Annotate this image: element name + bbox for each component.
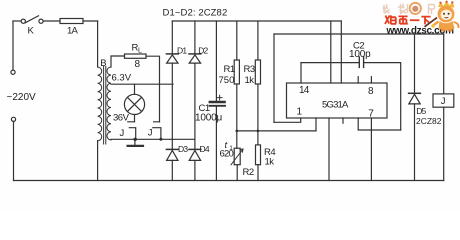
wire D5 bottom lead [414, 104, 416, 181]
switch K [21, 19, 25, 23]
svg-text:R1: R1 [224, 64, 235, 75]
svg-text:100p: 100p [349, 49, 371, 60]
pin stub top a [357, 77, 359, 83]
wire pin 7 down to bottom rail [370, 118, 372, 181]
terminal lower ~220V [11, 117, 15, 121]
wire relay J bottom lead [443, 107, 445, 180]
faint char group left [383, 4, 408, 15]
ground [134, 139, 136, 145]
lamp 36V [124, 94, 144, 114]
svg-text:J: J [441, 96, 446, 107]
wire RL right then down to contact J' [146, 56, 160, 122]
wire D4 anode to bottom rail [194, 160, 196, 180]
svg-text:2CZ82: 2CZ82 [416, 116, 442, 126]
wire D2 anode down to D4 [194, 63, 196, 149]
red text wei ku yi xia [385, 15, 431, 24]
svg-text:D3: D3 [178, 144, 188, 154]
wire C2 right segment down to pin row [364, 63, 400, 130]
svg-text:1k: 1k [265, 157, 275, 168]
svg-text:R2: R2 [243, 167, 254, 178]
diode D3 [166, 148, 178, 150]
svg-text:D2: D2 [198, 46, 208, 56]
svg-text:R3: R3 [244, 64, 255, 75]
svg-text:750: 750 [219, 75, 235, 86]
node junction R1/R2 divider [236, 130, 239, 133]
pin stub top b [370, 77, 372, 83]
wire R4 bottom lead [257, 165, 259, 181]
svg-text:~220V: ~220V [7, 92, 37, 103]
capacitor C1 polarity mark [217, 95, 222, 100]
wire D1 cathode lead [171, 21, 173, 54]
transformer B primary winding [98, 67, 102, 141]
diode D2 [189, 53, 201, 55]
wire top-left from terminal to switch [13, 20, 21, 22]
wire C1 bottom lead [215, 107, 217, 181]
wire rail2 from vertical feed [274, 33, 444, 35]
wire C1 top lead [215, 21, 217, 101]
wire switch to fuse [43, 20, 60, 22]
wire bottom pin to C2 drop [358, 118, 401, 130]
wire pin1 connection [274, 118, 301, 122]
wire primary top lead [97, 21, 99, 67]
svg-text:1k: 1k [245, 75, 255, 86]
wire pin row to divider [315, 118, 317, 131]
wire secondary top to RL [111, 56, 125, 67]
wire R1 bottom to node [236, 84, 238, 131]
node junction ground / contact J [134, 138, 137, 141]
mascot [431, 1, 458, 31]
node junction R3/R4 divider [257, 130, 260, 133]
wire R1 top lead [236, 21, 238, 60]
wire primary bottom lead [97, 141, 99, 181]
wire IC top pin to rail at 330.8 [330, 21, 332, 83]
IC U1 5G31A box [287, 83, 388, 118]
resistor R1 [234, 60, 239, 84]
svg-text:14: 14 [299, 85, 310, 96]
watermark logo dzsc [383, 1, 459, 37]
svg-text:L: L [138, 47, 142, 54]
wire D2 cathode lead [194, 21, 196, 54]
wire R3 top lead [257, 21, 259, 60]
wire 6.3V tap to D1 anode [111, 83, 173, 85]
diode D4 [189, 148, 201, 150]
resistor R4 [256, 145, 261, 165]
wire D1 anode down to D3 [171, 63, 173, 149]
svg-text:D5: D5 [416, 106, 426, 116]
svg-text:5G31A: 5G31A [322, 100, 349, 111]
thermistor R2 t1 [234, 148, 240, 165]
svg-text:D1~D2: 2CZ82: D1~D2: 2CZ82 [163, 7, 228, 18]
wire D3 anode to bottom rail [171, 160, 173, 180]
svg-text:B: B [100, 58, 106, 69]
node junction contact J' bottom [159, 138, 162, 141]
wire D5 top lead [414, 34, 416, 93]
svg-text:1A: 1A [67, 26, 78, 37]
wire bottom rail [14, 180, 444, 182]
svg-text:D4: D4 [200, 144, 210, 154]
wire lamp top lead [134, 84, 136, 94]
transformer secondary winding [107, 67, 111, 140]
relay coil J box [433, 94, 454, 107]
mascot pen stroke [425, 18, 438, 27]
wire top positive rail [172, 20, 341, 22]
wire R3 bottom through node to R4 [257, 84, 259, 145]
wire rail2 left leg down to pin1 wire [273, 34, 275, 122]
wire fuse to transformer primary [83, 20, 98, 22]
fuse F 1A [60, 19, 83, 24]
wire R2 bottom lead [236, 165, 238, 181]
wire lamp bottom lead [134, 115, 136, 122]
relay contact J' (right) [153, 122, 161, 140]
faint char group right [429, 4, 435, 15]
resistor R3 [255, 60, 260, 84]
wire IC bottom pin down to rail at 329 [328, 118, 330, 181]
svg-text:D1: D1 [177, 46, 187, 56]
svg-text:J: J [148, 127, 153, 138]
diode D1 [166, 53, 178, 55]
faint badge [410, 3, 421, 14]
wire divider node row [237, 130, 316, 132]
svg-text:620: 620 [220, 148, 234, 159]
pin 14 lead up [300, 63, 302, 83]
wire lower terminal down [13, 122, 15, 181]
transformer core [104, 67, 106, 145]
wire IC top pin to rail at 341.3 [340, 21, 342, 83]
svg-text:36V: 36V [113, 113, 130, 124]
wire secondary bottom to D2/D4 junction [111, 138, 195, 141]
wire relay J top lead [443, 34, 445, 94]
relay contact J (left) [128, 122, 136, 140]
wire R2 top lead [236, 131, 238, 148]
wire C2 left segment [301, 62, 359, 64]
svg-text:6.3V: 6.3V [112, 73, 132, 84]
capacitor C2 [359, 57, 363, 67]
svg-text:1000μ: 1000μ [195, 112, 222, 123]
wire left side down to terminal [12, 21, 14, 70]
terminal upper ~220V [11, 70, 15, 74]
resistor RL [125, 54, 147, 58]
pin stub bottom short [342, 118, 344, 123]
capacitor C1 [210, 101, 225, 103]
diode D5 [409, 92, 421, 94]
